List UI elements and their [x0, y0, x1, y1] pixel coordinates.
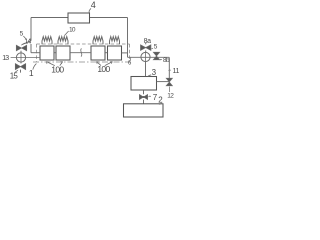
cylinder 4 body [108, 46, 122, 60]
heater coil on cylinder 2 [58, 37, 68, 45]
svg-text:14: 14 [24, 38, 31, 45]
wire pump13 to valve15 [20, 62, 22, 63]
wire left riser [30, 18, 32, 41]
tilde leader of label 11 [169, 69, 171, 72]
valve 12 hourglass [166, 78, 172, 86]
label 100 left arrows [46, 62, 62, 66]
air pump 13 circle [16, 53, 25, 62]
wire manifold segment d [105, 52, 108, 54]
label 10 leader [65, 31, 69, 35]
valve 14 stem [21, 44, 23, 47]
wire top pipe left segment [31, 17, 68, 19]
valve 15 outlet stub [20, 70, 22, 73]
svg-text:2: 2 [158, 96, 163, 105]
wire manifold segment c with break [70, 52, 91, 54]
cylinder 1 body [40, 46, 54, 60]
svg-text:4: 4 [91, 0, 96, 10]
label 2 leader [159, 103, 161, 105]
svg-text:100: 100 [51, 65, 64, 75]
tilde leader of label 7 [149, 95, 151, 98]
wire intake manifold segment a [31, 52, 40, 54]
label 14 leader [23, 43, 25, 45]
valve 7 center dot [143, 96, 145, 98]
wire top pipe right segment [90, 17, 128, 19]
heater coil on cylinder 4 [110, 37, 120, 45]
svg-text:8a: 8a [144, 38, 151, 45]
pump 13 vertical diameter [20, 53, 22, 62]
valve 7 bowtie [139, 95, 147, 100]
svg-text:3: 3 [152, 68, 157, 77]
wire manifold segment b [54, 52, 56, 54]
wire left riser lower to manifold [30, 44, 32, 53]
wire valve8a to pump6 [145, 50, 147, 52]
heater coil 10 on cylinder 1 [42, 37, 52, 45]
engine enclosure dashed right edge [129, 44, 131, 62]
label 15 leader [15, 70, 18, 72]
cylinder 2 body [56, 46, 70, 60]
svg-text:12: 12 [167, 93, 174, 100]
engine enclosure dash-dot bottom edge (crankcase line 1) [33, 61, 131, 63]
wire valve14 to pump13 [20, 51, 22, 53]
valve 14 bowtie [16, 45, 26, 51]
valve 15 bowtie [15, 64, 25, 70]
label 1 leader [33, 64, 37, 70]
wire line 11 vertical [168, 57, 170, 78]
engine enclosure dashed top edge [37, 43, 130, 45]
wire box3 down to valve 7 [143, 90, 145, 94]
label 13 arrow and wire pump13 to engine [11, 57, 40, 59]
wire box3 to line 11 [157, 81, 170, 83]
valve 8a bowtie [141, 45, 151, 51]
wire valve7 to canister 2 [143, 100, 145, 104]
pump 6 vertical diameter [145, 52, 147, 61]
box 4 (catalyst device on top pipe) [68, 13, 90, 23]
pipe break squiggle [81, 49, 82, 57]
air pump 6 circle [141, 52, 150, 61]
valve 8a stem up [145, 43, 147, 45]
svg-text:8b: 8b [163, 57, 170, 64]
label 6 tick [129, 58, 131, 60]
label 5 right leader [151, 47, 153, 50]
cylinder 3 body [91, 46, 105, 60]
svg-text:5: 5 [154, 43, 158, 50]
svg-text:5: 5 [20, 31, 24, 38]
svg-text:13: 13 [2, 55, 9, 62]
check valve 8b hourglass [153, 52, 159, 60]
wire left riser diagonal to valve 14 [22, 41, 31, 45]
wire manifold segment e [122, 52, 128, 54]
svg-text:1: 1 [29, 68, 34, 78]
label 3 leader [148, 75, 151, 77]
wire pump6 down to box 3 [145, 62, 147, 77]
wire right riser through pump 6 and valve 8b to corner [128, 56, 170, 58]
wire right riser [127, 18, 129, 58]
tilde leader of label 8b [160, 58, 162, 61]
canister 2 box [124, 104, 164, 117]
svg-text:100: 100 [97, 64, 110, 74]
label 5 left leader [23, 36, 26, 40]
label 12 leader [168, 87, 170, 92]
label 100 right arrows [97, 62, 113, 66]
svg-text:11: 11 [173, 68, 180, 75]
svg-text:7: 7 [153, 93, 158, 102]
box 3 (adsorber) [131, 77, 157, 91]
heater coil on cylinder 3 [93, 37, 103, 45]
label 4 leader [89, 8, 91, 12]
engine enclosure dashed left edge [36, 44, 38, 62]
